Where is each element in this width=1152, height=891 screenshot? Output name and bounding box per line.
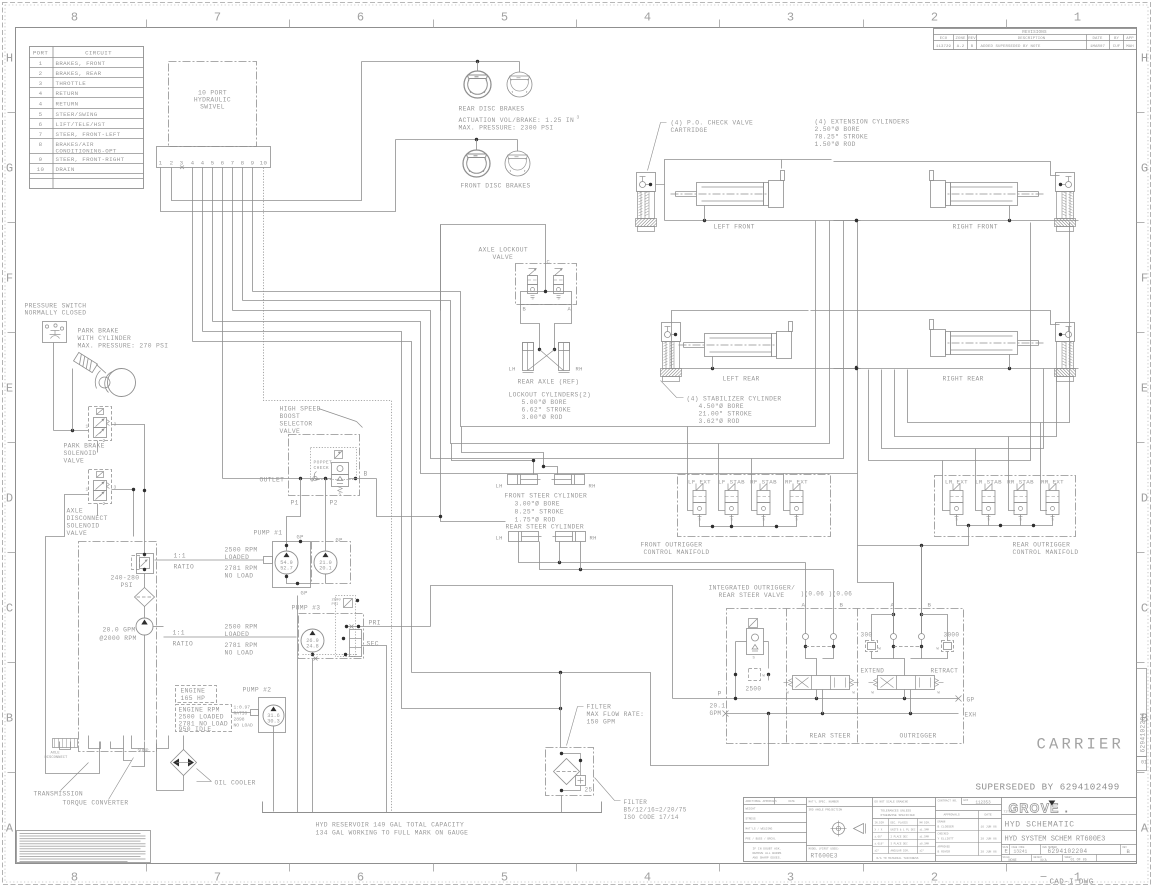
transmission box <box>46 721 100 774</box>
svg-text:5.00″Ø BORE: 5.00″Ø BORE <box>522 398 567 406</box>
svg-text:RR STAB: RR STAB <box>1007 479 1034 486</box>
EXH line <box>726 713 959 715</box>
oil cooler <box>171 750 197 776</box>
pump2 outlet down <box>273 726 275 812</box>
svg-text:2800: 2800 <box>332 599 342 603</box>
svg-text:S: S <box>532 298 535 302</box>
svg-text:2500 RPM: 2500 RPM <box>225 547 258 554</box>
svg-text:S: S <box>558 298 561 302</box>
wire rear manifold riser LR EXT <box>869 223 1031 461</box>
left front cylinder group box <box>665 160 832 221</box>
svg-text:RETRACT: RETRACT <box>931 668 959 675</box>
reservoir tub <box>263 802 602 813</box>
svg-text:BY: BY <box>1114 37 1120 41</box>
wire center riser <box>858 221 894 634</box>
svg-text:B: B <box>523 307 527 313</box>
svg-text:01: 01 <box>1141 760 1147 766</box>
svg-text:RIGHT FRONT: RIGHT FRONT <box>953 224 998 231</box>
front disc brake right <box>505 151 530 176</box>
rear manifold bus <box>957 515 1053 526</box>
wire port 7 circuit <box>233 221 844 459</box>
svg-text:REMOVE ALL BURRS: REMOVE ALL BURRS <box>753 852 782 855</box>
svg-text:3 PLACE DEC: 3 PLACE DEC <box>891 843 909 846</box>
rear steer feed wires <box>519 542 806 563</box>
svg-text:2: 2 <box>931 11 938 25</box>
svg-text:BRAKES, FRONT: BRAKES, FRONT <box>56 60 106 67</box>
svg-text:2500: 2500 <box>746 686 762 693</box>
svg-text:AXLE: AXLE <box>67 508 84 515</box>
svg-text:B: B <box>928 602 932 609</box>
outrigger spool feed <box>894 653 905 676</box>
svg-text:NO LOAD: NO LOAD <box>225 650 254 657</box>
pump 3 drive line <box>164 636 297 638</box>
zone tick marks <box>146 20 148 28</box>
svg-text:GP: GP <box>297 535 304 541</box>
svg-text:W: W <box>853 692 856 696</box>
svg-text:LIFT/TELE/HST: LIFT/TELE/HST <box>56 121 106 128</box>
main filter box <box>546 748 594 796</box>
svg-text:1: 1 <box>1074 11 1081 25</box>
svg-text:5: 5 <box>211 160 215 167</box>
svg-text:4: 4 <box>644 11 651 25</box>
svg-text:TORQUE CONVERTER: TORQUE CONVERTER <box>63 800 129 807</box>
wire port 2 to rear brakes <box>172 62 362 201</box>
svg-text:IN.DIM: IN.DIM <box>875 822 885 825</box>
svg-text:1: 1 <box>86 424 89 430</box>
svg-text:ZONE: ZONE <box>955 37 966 41</box>
svg-text:CUF: CUF <box>1113 45 1121 49</box>
svg-text:113729: 113729 <box>936 45 952 49</box>
port circuit table <box>30 47 144 189</box>
svg-text:HYD SCHEMATIC: HYD SCHEMATIC <box>1005 821 1075 830</box>
svg-text:DESCRIPTION: DESCRIPTION <box>1018 37 1046 41</box>
wire front steer LH branch <box>452 444 534 475</box>
pump #1b circle <box>314 551 337 574</box>
svg-text:8: 8 <box>71 11 78 25</box>
boost valve check block <box>332 463 349 475</box>
svg-text:AXLE: AXLE <box>51 752 61 756</box>
svg-text:20.1: 20.1 <box>710 703 726 710</box>
svg-text:EXTEND: EXTEND <box>861 668 885 675</box>
svg-text:1MAR07: 1MAR07 <box>1090 45 1106 49</box>
left front wires <box>656 184 665 186</box>
svg-text:STEER, FRONT-RIGHT: STEER, FRONT-RIGHT <box>56 156 125 163</box>
axle disconnect mini valve <box>53 739 78 748</box>
left front extension cylinder <box>697 183 764 206</box>
svg-text:H: H <box>6 52 13 66</box>
wire port 7 stub <box>232 168 234 311</box>
right front extension cylinder <box>930 171 1044 208</box>
svg-text:13241: 13241 <box>1014 849 1028 855</box>
wire port 4a return <box>193 342 412 673</box>
svg-text:C: C <box>1141 602 1148 616</box>
svg-text:RH: RH <box>589 484 596 490</box>
svg-text:RT600E3: RT600E3 <box>811 853 838 860</box>
left relief component 2500 <box>749 619 758 628</box>
svg-text:1:1: 1:1 <box>174 553 186 560</box>
svg-text:RH: RH <box>576 367 583 373</box>
front steer cylinder right <box>552 475 585 485</box>
svg-text:W: W <box>879 648 882 652</box>
wire rear manifold riser RR STAB <box>895 369 1057 437</box>
svg-text:A-2: A-2 <box>957 45 965 49</box>
svg-text:GP: GP <box>336 538 343 544</box>
steer pump outlet wire <box>153 626 164 628</box>
svg-text:9: 9 <box>251 160 255 167</box>
pump #1 circle <box>275 551 298 574</box>
svg-text:ENGINE RPM: ENGINE RPM <box>179 707 220 714</box>
svg-text:APP: APP <box>1126 37 1134 41</box>
svg-text:RATIO: RATIO <box>234 711 248 717</box>
svg-text:MAX. PRESSURE: 2300 PSI: MAX. PRESSURE: 2300 PSI <box>459 125 554 132</box>
svg-text:300: 300 <box>861 632 873 639</box>
svg-text:DATE: DATE <box>789 800 796 803</box>
svg-text:7: 7 <box>214 11 221 25</box>
svg-text:OIL COOLER: OIL COOLER <box>215 780 256 787</box>
svg-text:A: A <box>1141 822 1149 836</box>
svg-text:8: 8 <box>241 160 245 167</box>
svg-text:C: C <box>547 260 551 266</box>
wire rear bus to outrigger B <box>858 526 969 546</box>
svg-text:GP: GP <box>967 697 975 704</box>
svg-text:4: 4 <box>191 160 195 167</box>
wire port 8 stub <box>242 168 244 301</box>
svg-text:W: W <box>872 692 875 696</box>
wire valve drains <box>97 441 99 453</box>
wire port 4b return to filter <box>203 332 561 709</box>
boost valve spring bottom <box>338 487 343 489</box>
title lower row <box>1002 844 1137 846</box>
svg-text:MAX. PRESSURE: 270 PSI: MAX. PRESSURE: 270 PSI <box>78 343 169 350</box>
GP X symbol <box>956 696 962 702</box>
svg-text:RH: RH <box>590 536 597 542</box>
left rear check cartridge <box>662 323 681 342</box>
svg-text:NO LOAD: NO LOAD <box>225 573 254 580</box>
svg-text:CONTRACT NO.: CONTRACT NO. <box>938 800 958 803</box>
axle lockout outer box <box>516 264 577 305</box>
svg-text:RATIO: RATIO <box>174 564 195 571</box>
svg-text:SOLENOID: SOLENOID <box>64 450 97 457</box>
svg-text:20 JUN 06: 20 JUN 06 <box>981 851 997 854</box>
proprietary notes block <box>17 831 151 863</box>
svg-text:21.00″ STROKE: 21.00″ STROKE <box>699 411 753 418</box>
svg-text:7: 7 <box>39 131 43 138</box>
svg-text:HYD SYSTEM SCHEM RT600E3: HYD SYSTEM SCHEM RT600E3 <box>1005 836 1106 844</box>
leader filter2 <box>595 778 621 801</box>
wire C feed <box>441 225 546 311</box>
right rear wires <box>834 368 1079 370</box>
port 3 plug mark <box>180 166 184 170</box>
title block col dividers <box>806 798 808 862</box>
svg-text:TOLERANCES UNLESS: TOLERANCES UNLESS <box>881 810 912 813</box>
wire port 8 circuit <box>243 221 830 444</box>
rear disc brake right <box>507 72 532 97</box>
svg-text:A: A <box>6 822 14 836</box>
left rear wires <box>672 368 861 370</box>
svg-text:±.016″: ±.016″ <box>875 842 885 846</box>
wire P1 to pump1 <box>287 479 301 542</box>
svg-text:CONTROL MANIFOLD: CONTROL MANIFOLD <box>1013 549 1079 556</box>
svg-text:ENGINE: ENGINE <box>181 688 206 695</box>
svg-text:CIRCUIT: CIRCUIT <box>85 50 112 57</box>
svg-text:6: 6 <box>39 121 43 128</box>
svg-text:950 IDLE: 950 IDLE <box>179 726 212 733</box>
svg-text:CHECKED: CHECKED <box>938 833 949 836</box>
pri riser to P <box>431 586 673 699</box>
svg-text:5: 5 <box>501 871 508 885</box>
svg-text:X / X: X / X <box>875 828 883 832</box>
svg-text:TITLE: TITLE <box>1004 811 1013 814</box>
svg-text:OUTRIGGER: OUTRIGGER <box>900 733 937 740</box>
wire port 1 to front brakes <box>161 140 396 212</box>
svg-text:6294102204: 6294102204 <box>1048 848 1088 855</box>
sec line <box>362 646 387 813</box>
svg-text:PARK BRAKE: PARK BRAKE <box>78 328 119 335</box>
svg-text:2500 RPM: 2500 RPM <box>225 624 258 631</box>
filter bypass <box>562 754 581 776</box>
svg-text:STEER/SWING: STEER/SWING <box>56 111 98 118</box>
svg-text:POPPET: POPPET <box>314 460 333 466</box>
right rear extension cylinder <box>930 320 1044 357</box>
svg-text:7: 7 <box>214 871 221 885</box>
rear disc brake left <box>464 71 491 98</box>
boost valve outer box <box>289 435 360 496</box>
svg-text:3000: 3000 <box>944 632 960 639</box>
steering priority dash-dot box <box>79 542 157 752</box>
left rear extension cylinder <box>705 334 772 357</box>
wire rear manifold riser RR EXT <box>908 223 1070 423</box>
svg-text:B5/12/16=2/20/75: B5/12/16=2/20/75 <box>624 807 687 814</box>
svg-text:HYDRAULIC: HYDRAULIC <box>194 97 231 104</box>
svg-text:4: 4 <box>644 871 651 885</box>
svg-text:FRONT OUTRIGGER: FRONT OUTRIGGER <box>641 542 703 549</box>
svg-text:LF EXT: LF EXT <box>688 479 711 486</box>
svg-text:FILTER: FILTER <box>624 799 648 806</box>
wire port 10 drain dotted <box>264 168 392 813</box>
svg-text:NONE: NONE <box>1009 859 1017 863</box>
svg-text:E: E <box>1141 382 1148 396</box>
pump #2 connector <box>251 710 259 716</box>
svg-text:5: 5 <box>501 11 508 25</box>
relief valve 240-280 psi <box>137 554 154 574</box>
svg-text:VALVE: VALVE <box>280 428 301 435</box>
svg-text:WEIGHT: WEIGHT <box>746 808 756 811</box>
wire B to bundle <box>377 479 442 517</box>
svg-text:VALVE: VALVE <box>64 458 85 465</box>
svg-text:112353: 112353 <box>976 802 992 806</box>
pump #3 box <box>299 614 364 659</box>
svg-text:SUPERSEDED BY 6294102499: SUPERSEDED BY 6294102499 <box>976 782 1120 793</box>
svg-text:)(0.06: )(0.06 <box>829 591 853 598</box>
svg-text:PUMP #3: PUMP #3 <box>292 605 321 612</box>
svg-text:165 HP: 165 HP <box>181 695 206 702</box>
svg-text:TRANSMISSION: TRANSMISSION <box>34 791 84 798</box>
svg-text:Y ELLIOTT: Y ELLIOTT <box>938 838 954 841</box>
svg-text:MODEL (FIRST USED): MODEL (FIRST USED) <box>809 847 840 851</box>
svg-text:LR STAB: LR STAB <box>975 479 1002 486</box>
svg-text:B CLOSSER: B CLOSSER <box>938 826 954 829</box>
rear steer spool feed <box>806 653 817 676</box>
wire lockout C supply riser <box>441 225 506 522</box>
svg-text:PRESSURE SWITCH: PRESSURE SWITCH <box>25 303 87 310</box>
svg-text:2: 2 <box>170 160 174 167</box>
wire port 6 to outlet <box>222 168 224 479</box>
svg-text:1: 1 <box>159 160 163 167</box>
svg-text:2781 RPM: 2781 RPM <box>225 642 258 649</box>
pump #2 box <box>259 698 286 733</box>
svg-text:LH: LH <box>509 367 516 373</box>
main filter diamond <box>554 759 580 785</box>
svg-text:OTHERWISE SPECIFIED: OTHERWISE SPECIFIED <box>881 814 915 817</box>
svg-text:PSI: PSI <box>121 582 133 589</box>
svg-text:2.50″Ø BORE: 2.50″Ø BORE <box>815 125 860 133</box>
pump #3 circle <box>301 629 324 652</box>
svg-text:MM DIM.: MM DIM. <box>920 822 931 825</box>
svg-text:3.62″Ø ROD: 3.62″Ø ROD <box>699 417 740 425</box>
svg-text:24.8: 24.8 <box>306 644 318 650</box>
wire port 9 stub <box>252 168 254 292</box>
svg-text:(4) EXTENSION CYLINDERS: (4) EXTENSION CYLINDERS <box>815 119 910 126</box>
front disc brake left <box>463 150 490 177</box>
swivel port strip <box>157 147 271 168</box>
svg-text:±0.3MM: ±0.3MM <box>920 843 930 846</box>
svg-text:DISCONNECT: DISCONNECT <box>45 756 69 760</box>
svg-text:3: 3 <box>577 115 580 121</box>
svg-text:CHECK: CHECK <box>314 465 330 471</box>
svg-text:6294102204: 6294102204 <box>1140 712 1147 752</box>
svg-text:APPROVED: APPROVED <box>938 846 951 849</box>
svg-text:8: 8 <box>39 141 43 148</box>
pump2 drive line <box>232 712 251 714</box>
svg-text:E: E <box>6 382 13 396</box>
svg-text:EXH: EXH <box>965 712 977 719</box>
wire port 5 stub <box>212 168 214 322</box>
park brake drum circle <box>108 369 136 397</box>
rear steer spool valve <box>793 676 850 690</box>
title area <box>1002 814 1137 816</box>
svg-text:@2000 RPM: @2000 RPM <box>100 635 137 642</box>
svg-text:DRAWN: DRAWN <box>938 821 946 824</box>
svg-text:(4) P.O. CHECK VALVE: (4) P.O. CHECK VALVE <box>671 120 754 127</box>
svg-text:W: W <box>937 648 940 652</box>
wire LF EXT branch <box>688 427 694 511</box>
grove logo <box>1009 802 1068 816</box>
svg-text:AXLE LOCKOUT: AXLE LOCKOUT <box>479 247 529 254</box>
svg-text:MAT'LS / WELDING: MAT'LS / WELDING <box>746 827 773 831</box>
svg-text:ACTUATION VOL/BRAKE: 1.25 IN: ACTUATION VOL/BRAKE: 1.25 IN <box>459 117 575 124</box>
pump 1 drive line <box>155 559 264 561</box>
svg-text:CARTRIDGE: CARTRIDGE <box>671 127 708 134</box>
outlet line <box>223 478 332 480</box>
front steer cylinder left <box>508 475 538 485</box>
front manifold bus <box>700 515 797 527</box>
svg-text:REAR STEER: REAR STEER <box>810 733 851 740</box>
strainer diamond <box>135 588 155 607</box>
svg-text:DEC. PLACES: DEC. PLACES <box>891 822 909 825</box>
svg-text:(4) STABILIZER CYLINDER: (4) STABILIZER CYLINDER <box>687 396 782 403</box>
integrated valve box <box>727 609 964 744</box>
svg-text:20 JUN 06: 20 JUN 06 <box>981 838 997 841</box>
svg-text:P2: P2 <box>330 500 338 507</box>
pri line <box>347 626 431 628</box>
svg-text:FRONT STEER CYLINDER: FRONT STEER CYLINDER <box>505 493 588 500</box>
title block col2 <box>807 806 873 808</box>
svg-text:4.50″Ø BORE: 4.50″Ø BORE <box>699 402 744 410</box>
svg-text:DATE: DATE <box>1092 37 1103 41</box>
oil cooler pipes <box>124 749 132 761</box>
svg-text:CARRIER: CARRIER <box>1037 736 1125 754</box>
svg-text:UNITS & 1 PL DEC: UNITS & 1 PL DEC <box>891 829 916 832</box>
eco box <box>962 804 1002 806</box>
svg-text:N/A: N/A <box>1041 858 1048 863</box>
svg-text:PORT: PORT <box>33 50 48 57</box>
svg-text:HIGH SPEED: HIGH SPEED <box>280 406 321 413</box>
svg-text:150 GPM: 150 GPM <box>587 719 616 726</box>
right margin dwg number box <box>1137 669 1147 757</box>
svg-text:C: C <box>6 602 13 616</box>
left relief pilot <box>736 641 747 643</box>
svg-text:1:0.97: 1:0.97 <box>234 705 251 711</box>
pump1 inlet connector <box>264 557 273 564</box>
svg-text:52.7: 52.7 <box>280 566 292 572</box>
svg-text:D: D <box>1141 492 1148 506</box>
svg-text:4: 4 <box>39 101 43 108</box>
svg-text:ANGULAR DIM.: ANGULAR DIM. <box>891 850 910 853</box>
svg-text:PUMP #1: PUMP #1 <box>254 530 283 537</box>
svg-text:LOADED: LOADED <box>225 631 250 638</box>
sec component <box>350 630 362 657</box>
svg-text:4: 4 <box>39 90 43 97</box>
leader to cartridge <box>648 123 667 171</box>
right front wires <box>834 220 1079 222</box>
svg-text:GP: GP <box>301 591 308 597</box>
svg-text:REAR STEER VALVE: REAR STEER VALVE <box>719 592 785 599</box>
svg-text:3: 3 <box>787 11 794 25</box>
svg-text:PRE / BUSS / BRCKL: PRE / BUSS / BRCKL <box>746 837 777 841</box>
svg-text:01 OF 05: 01 OF 05 <box>1071 859 1087 863</box>
pump1 gp drain to tank <box>297 596 299 813</box>
svg-text:CAD-I DWG: CAD-I DWG <box>1050 879 1094 887</box>
third angle projection symbol <box>833 823 845 835</box>
boost valve inner dotted box <box>311 448 357 480</box>
wire axle valve port 1 to transmission <box>46 495 89 721</box>
svg-text:2: 2 <box>103 501 106 507</box>
wire front steer RH branch <box>462 427 558 475</box>
svg-text:)(0.06: )(0.06 <box>801 591 825 598</box>
svg-text:LOCKOUT CYLINDERS(2): LOCKOUT CYLINDERS(2) <box>509 392 592 399</box>
svg-text:P: P <box>718 691 722 698</box>
svg-text:IF IN DOUBT ASK.: IF IN DOUBT ASK. <box>753 848 782 851</box>
svg-text:RATIO: RATIO <box>173 641 194 648</box>
right rear check cartridge <box>1055 323 1076 382</box>
svg-text:AND SHARP EDGES.: AND SHARP EDGES. <box>753 857 782 860</box>
svg-text:RIGHT REAR: RIGHT REAR <box>943 376 984 383</box>
svg-text:ISO CODE 17/14: ISO CODE 17/14 <box>624 814 679 821</box>
svg-text:16 JUN 06: 16 JUN 06 <box>981 826 997 829</box>
front outrigger manifold box <box>678 475 831 537</box>
axle lockout solenoid right <box>555 268 563 270</box>
outrigger spool valve <box>878 676 935 690</box>
svg-text:±2°: ±2° <box>920 849 925 853</box>
svg-text:DRAIN: DRAIN <box>56 166 75 173</box>
svg-text:4: 4 <box>201 160 205 167</box>
svg-text:A: A <box>568 307 572 313</box>
svg-text:WITH CYLINDER: WITH CYLINDER <box>78 335 132 342</box>
filter to reservoir <box>561 796 563 813</box>
svg-text:6: 6 <box>357 871 364 885</box>
svg-text:F: F <box>6 272 13 286</box>
svg-text:2: 2 <box>39 70 43 77</box>
